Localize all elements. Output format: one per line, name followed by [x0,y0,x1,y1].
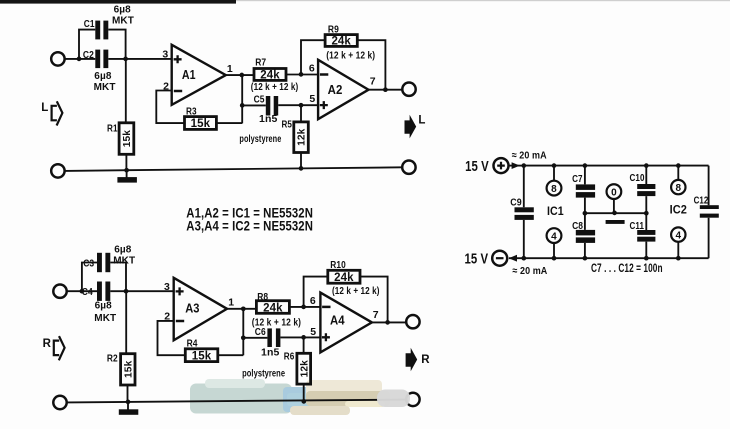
ground terminal right [402,161,415,174]
positive supply terminal [494,158,509,173]
LTOP [41,4,425,182]
svg-text:6µ8: 6µ8 [94,71,112,82]
wire: A1 output row [226,74,318,77]
capacitor C7 [576,184,595,197]
label C9 [510,197,522,209]
input terminal (L) [51,52,64,65]
capacitor C8 [576,230,595,243]
pin 1 label [227,63,233,75]
node: C4 output junction [124,289,129,294]
svg-text:R: R [421,354,430,366]
pin 5 label [310,326,316,338]
svg-text:A2: A2 [328,82,343,97]
value 6µ8 MKT (top) [112,4,134,26]
svg-text:12k: 12k [299,360,310,378]
label IC2 [670,203,687,217]
svg-text:R8: R8 [257,291,268,303]
pin 2 label [163,80,169,92]
plus sign A3 [176,287,184,295]
label IC1 [547,204,564,218]
label R10 [330,259,346,271]
svg-text:3: 3 [164,281,170,293]
node dots negative rail [521,256,680,261]
label C12 [694,194,709,206]
output terminal (R) [406,315,419,328]
svg-text:24k: 24k [331,36,351,48]
wire: input line to A1 pin 3 [65,58,172,60]
capacitor C2 [95,50,108,69]
label polystyrene [242,369,285,380]
negative supply terminal [492,251,507,266]
label C8 [572,220,583,232]
label 20 mA (top) [512,150,547,162]
svg-text:15 V: 15 V [465,159,489,175]
node: C6 left junction [241,335,246,340]
wire: right vertical [708,166,710,259]
label R7 [255,57,266,69]
svg-text:R4: R4 [187,338,198,350]
svg-text:MKT: MKT [94,313,116,324]
ground symbol [117,170,136,182]
node: C5 left junction [240,103,245,108]
svg-text:15k: 15k [123,360,134,378]
ground rail (top circuit) [65,167,402,171]
resistor R1 [119,123,134,155]
node: A2 output junction [383,87,388,92]
node: C2 output junction [123,57,128,62]
wire: 0 V stem [613,199,615,213]
node: mid rail right [644,211,649,216]
pin 6 label [310,295,316,307]
capacitor C10 [637,184,655,196]
label 15 V (positive) [465,159,489,175]
label C10 [630,172,645,184]
svg-text:C2: C2 [83,49,94,61]
svg-text:R5: R5 [282,119,293,131]
wire: C6 row [243,336,320,338]
svg-text:7: 7 [373,309,379,321]
resistor R8 [256,301,289,315]
svg-text:1n5: 1n5 [259,113,277,125]
svg-text:24k: 24k [263,302,283,314]
wire: C8 column [584,213,586,258]
wire: R5 stem [300,105,302,168]
svg-text:C12: C12 [694,194,709,206]
minus sign A4 [322,306,330,309]
minus sign A2 [320,73,328,76]
node: 0 V to mid rail [612,211,617,216]
label C6 [255,326,266,338]
svg-text:5: 5 [309,93,315,105]
svg-text:6µ8: 6µ8 [114,4,132,15]
svg-text:6µ8: 6µ8 [114,244,132,255]
resistor R2 [121,354,135,385]
capacitor C5 [266,96,278,116]
ground rail (bottom circuit) [67,400,407,403]
plus sign A1 [174,55,182,63]
label R3 [186,106,197,118]
svg-text:polystyrene: polystyrene [239,134,281,145]
pin 3 label [162,48,168,60]
output terminal (L) [402,83,415,96]
label 20 mA (bottom) [512,265,547,277]
label R5 [282,119,293,131]
value (12 k + 12 k) under R10 [332,286,380,297]
op-amp A4 [320,293,372,353]
svg-text:1n5: 1n5 [261,347,279,359]
svg-text:A3: A3 [185,301,199,316]
ground terminal left [51,164,64,177]
capacitor C4 [97,282,110,301]
svg-text:(12 k + 12 k): (12 k + 12 k) [326,50,375,61]
svg-text:MKT: MKT [112,15,134,26]
capacitor C6 [267,328,280,347]
wire: C7 column [584,166,586,214]
svg-text:C10: C10 [630,172,645,184]
resistor R7 [254,69,286,82]
svg-text:7: 7 [370,76,376,88]
svg-text:6: 6 [309,63,315,75]
R input arrow [43,336,65,360]
ground terminal right [406,393,419,406]
svg-text:C4: C4 [82,286,93,298]
label C1 [84,18,95,30]
label R2 [107,353,118,365]
pin 2 label [164,310,170,322]
wire: A3 output row [227,307,320,309]
ground terminal left [53,396,66,409]
wire: C10 column [645,166,647,214]
svg-text:IC1: IC1 [547,204,564,218]
wire: C3 branch [82,263,126,292]
minus sign A3 [176,320,184,323]
resistor R3 [185,117,217,131]
svg-text:C1: C1 [84,18,95,30]
svg-text:C8: C8 [572,220,583,232]
svg-text:12k: 12k [297,128,308,146]
0 V terminal [607,184,622,199]
RBOT [43,244,431,414]
svg-text:C5: C5 [254,94,265,106]
svg-text:6: 6 [310,295,316,307]
wire: R10 feedback loop [304,277,388,323]
svg-text:8: 8 [675,183,681,194]
value (12 k + 12 k) under R8 [252,318,301,329]
pin 7 label [370,76,376,88]
value 6µ8 MKT (above) [113,244,135,266]
pin 3 label [164,281,170,293]
svg-text:(12 k + 12 k): (12 k + 12 k) [332,286,380,297]
note A1,A2 = IC1 [186,206,313,221]
pin 5 label [309,93,315,105]
svg-text:C7: C7 [572,173,583,185]
capacitor C3 [97,253,110,272]
node: mid rail left [583,211,588,216]
resistor R6 [297,353,311,384]
op-amp A1 [172,45,226,105]
IC2 pin 4 [671,227,685,258]
wire: mid rail [585,212,646,214]
svg-text:15k: 15k [192,350,212,362]
capacitor C11 [637,230,655,242]
svg-text:15k: 15k [191,118,211,130]
IC1 pin 4 [547,228,562,258]
wire: input line to A3 pin 3 [67,290,174,292]
svg-text:R9: R9 [328,23,339,35]
svg-text:R1: R1 [107,123,118,135]
value 1n5 [261,347,279,359]
value 6µ8 MKT (below C2) [94,71,116,93]
wire: R9 feedback loop [301,40,385,89]
svg-text:MKT: MKT [94,82,116,93]
svg-text:L: L [418,115,425,127]
wire: positive rail [524,165,709,167]
ground symbol (PSU) [606,220,625,224]
value (12 k + 12 k) under R9 [326,50,375,61]
svg-text:R6: R6 [284,351,295,363]
svg-text:4: 4 [675,231,681,242]
svg-text:1: 1 [228,297,234,309]
node: R1 to rail [124,168,129,173]
svg-text:C6: C6 [255,326,266,338]
IC2 pin 8 [671,166,685,195]
input terminal (R) [53,285,66,298]
capacitor C1 [95,21,108,40]
label C3 [83,257,94,269]
node: R5 to rail [299,166,304,171]
watermark blob over right ground terminal [377,390,410,408]
node dots positive rail [521,163,680,168]
svg-text:15k: 15k [122,130,133,148]
wire: R2 stem [126,291,127,402]
plus sign A2 [320,101,328,109]
value (12 k + 12 k) under R7 [251,82,298,93]
svg-text:A1: A1 [182,67,196,82]
svg-text:≈ 20 mA: ≈ 20 mA [512,265,547,277]
svg-text:15 V: 15 V [465,251,489,267]
value 6µ8 MKT (below C4) [94,301,116,324]
current arrow (out, -) [509,255,517,262]
svg-text:C9: C9 [510,197,522,209]
CENTERTEXT [186,206,313,234]
wire: A4 output [372,321,406,323]
wire: A1 feedback loop to R3 [156,75,242,123]
PSU [465,150,719,277]
label R8 [257,291,268,303]
node: pin5 junction [301,335,306,340]
node: A3 output [241,306,246,311]
wire: C5 row [242,104,318,106]
label C7 [572,173,583,185]
resistor R10 [328,270,360,284]
resistor R9 [325,35,357,48]
svg-text:3: 3 [162,48,168,60]
wire: C11 column [645,213,647,258]
wire: C9 column [523,166,525,259]
svg-text:5: 5 [310,326,316,338]
svg-text:R10: R10 [330,259,346,271]
label polystyrene [239,134,281,145]
node: R8 right junction [301,305,306,310]
svg-text:4: 4 [551,232,557,243]
node: R2 to rail [126,400,131,405]
label R1 [107,123,118,135]
label 15 V (negative) [465,251,489,267]
node: A1 output [239,73,244,78]
IC1 pin 8 [547,166,562,196]
label C5 [254,94,265,106]
node: R7 right junction [299,72,304,77]
svg-text:8: 8 [551,184,557,195]
svg-text:≈ 20 mA: ≈ 20 mA [512,150,547,162]
pin 1 label [228,297,234,309]
svg-text:R7: R7 [255,57,266,69]
current arrow (in, +) [509,162,524,169]
svg-text:24k: 24k [260,70,280,82]
L output arrow [405,115,426,139]
top rule [0,0,730,4]
resistor R4 [185,349,218,363]
value 1n5 [259,113,277,125]
svg-text:(12 k + 12 k): (12 k + 12 k) [251,82,298,93]
pin 6 label [309,63,315,75]
note C7...C12 = 100n [591,263,663,275]
capacitor C9 [515,207,534,220]
node: input junction [80,289,85,294]
minus sign A1 [174,90,182,93]
capacitor C12 [700,205,719,218]
pin 7 label [373,309,379,321]
svg-text:1: 1 [227,63,233,75]
wire: negative rail [509,257,709,259]
svg-text:24k: 24k [334,272,354,284]
svg-text:MKT: MKT [113,256,135,267]
WATERMARK [190,379,390,415]
label R6 [284,351,295,363]
wire: R1 stem [125,59,128,170]
node: R6 to rail [301,399,306,404]
node: pin5 junction [299,103,304,108]
svg-text:C3: C3 [83,257,94,269]
svg-text:C11: C11 [630,220,645,232]
svg-text:R3: R3 [186,106,197,118]
svg-text:L: L [41,102,48,114]
wire: C1 branch [79,30,126,59]
label C4 [82,286,93,298]
op-amp A3 [174,278,227,341]
svg-text:A4: A4 [330,312,345,327]
ground symbol [119,402,139,415]
node: A4 output junction [385,320,390,325]
label R4 [187,338,198,350]
svg-text:R2: R2 [107,353,118,365]
resistor R5 [294,122,309,153]
svg-text:C7 . . . C12 = 100n: C7 . . . C12 = 100n [591,263,663,275]
op-amp A2 [318,60,368,119]
svg-text:6µ8: 6µ8 [95,301,113,312]
label R9 [328,23,339,35]
svg-text:IC2: IC2 [670,203,687,217]
L input arrow [41,101,62,125]
wire: R6 stem [303,337,305,401]
R output arrow [406,348,431,372]
svg-text:polystyrene: polystyrene [242,369,285,380]
svg-text:0: 0 [611,188,617,199]
svg-text:R: R [43,338,52,350]
wire: A3 feedback loop to R4 [158,309,244,355]
plus sign A4 [322,333,330,341]
svg-text:A3,A4 = IC2 = NE5532N: A3,A4 = IC2 = NE5532N [186,219,313,234]
node: input junction [77,57,82,62]
label C11 [630,220,645,232]
wire: A2 output [369,89,403,91]
note A3,A4 = IC2 [186,219,313,234]
label C2 [83,49,94,61]
